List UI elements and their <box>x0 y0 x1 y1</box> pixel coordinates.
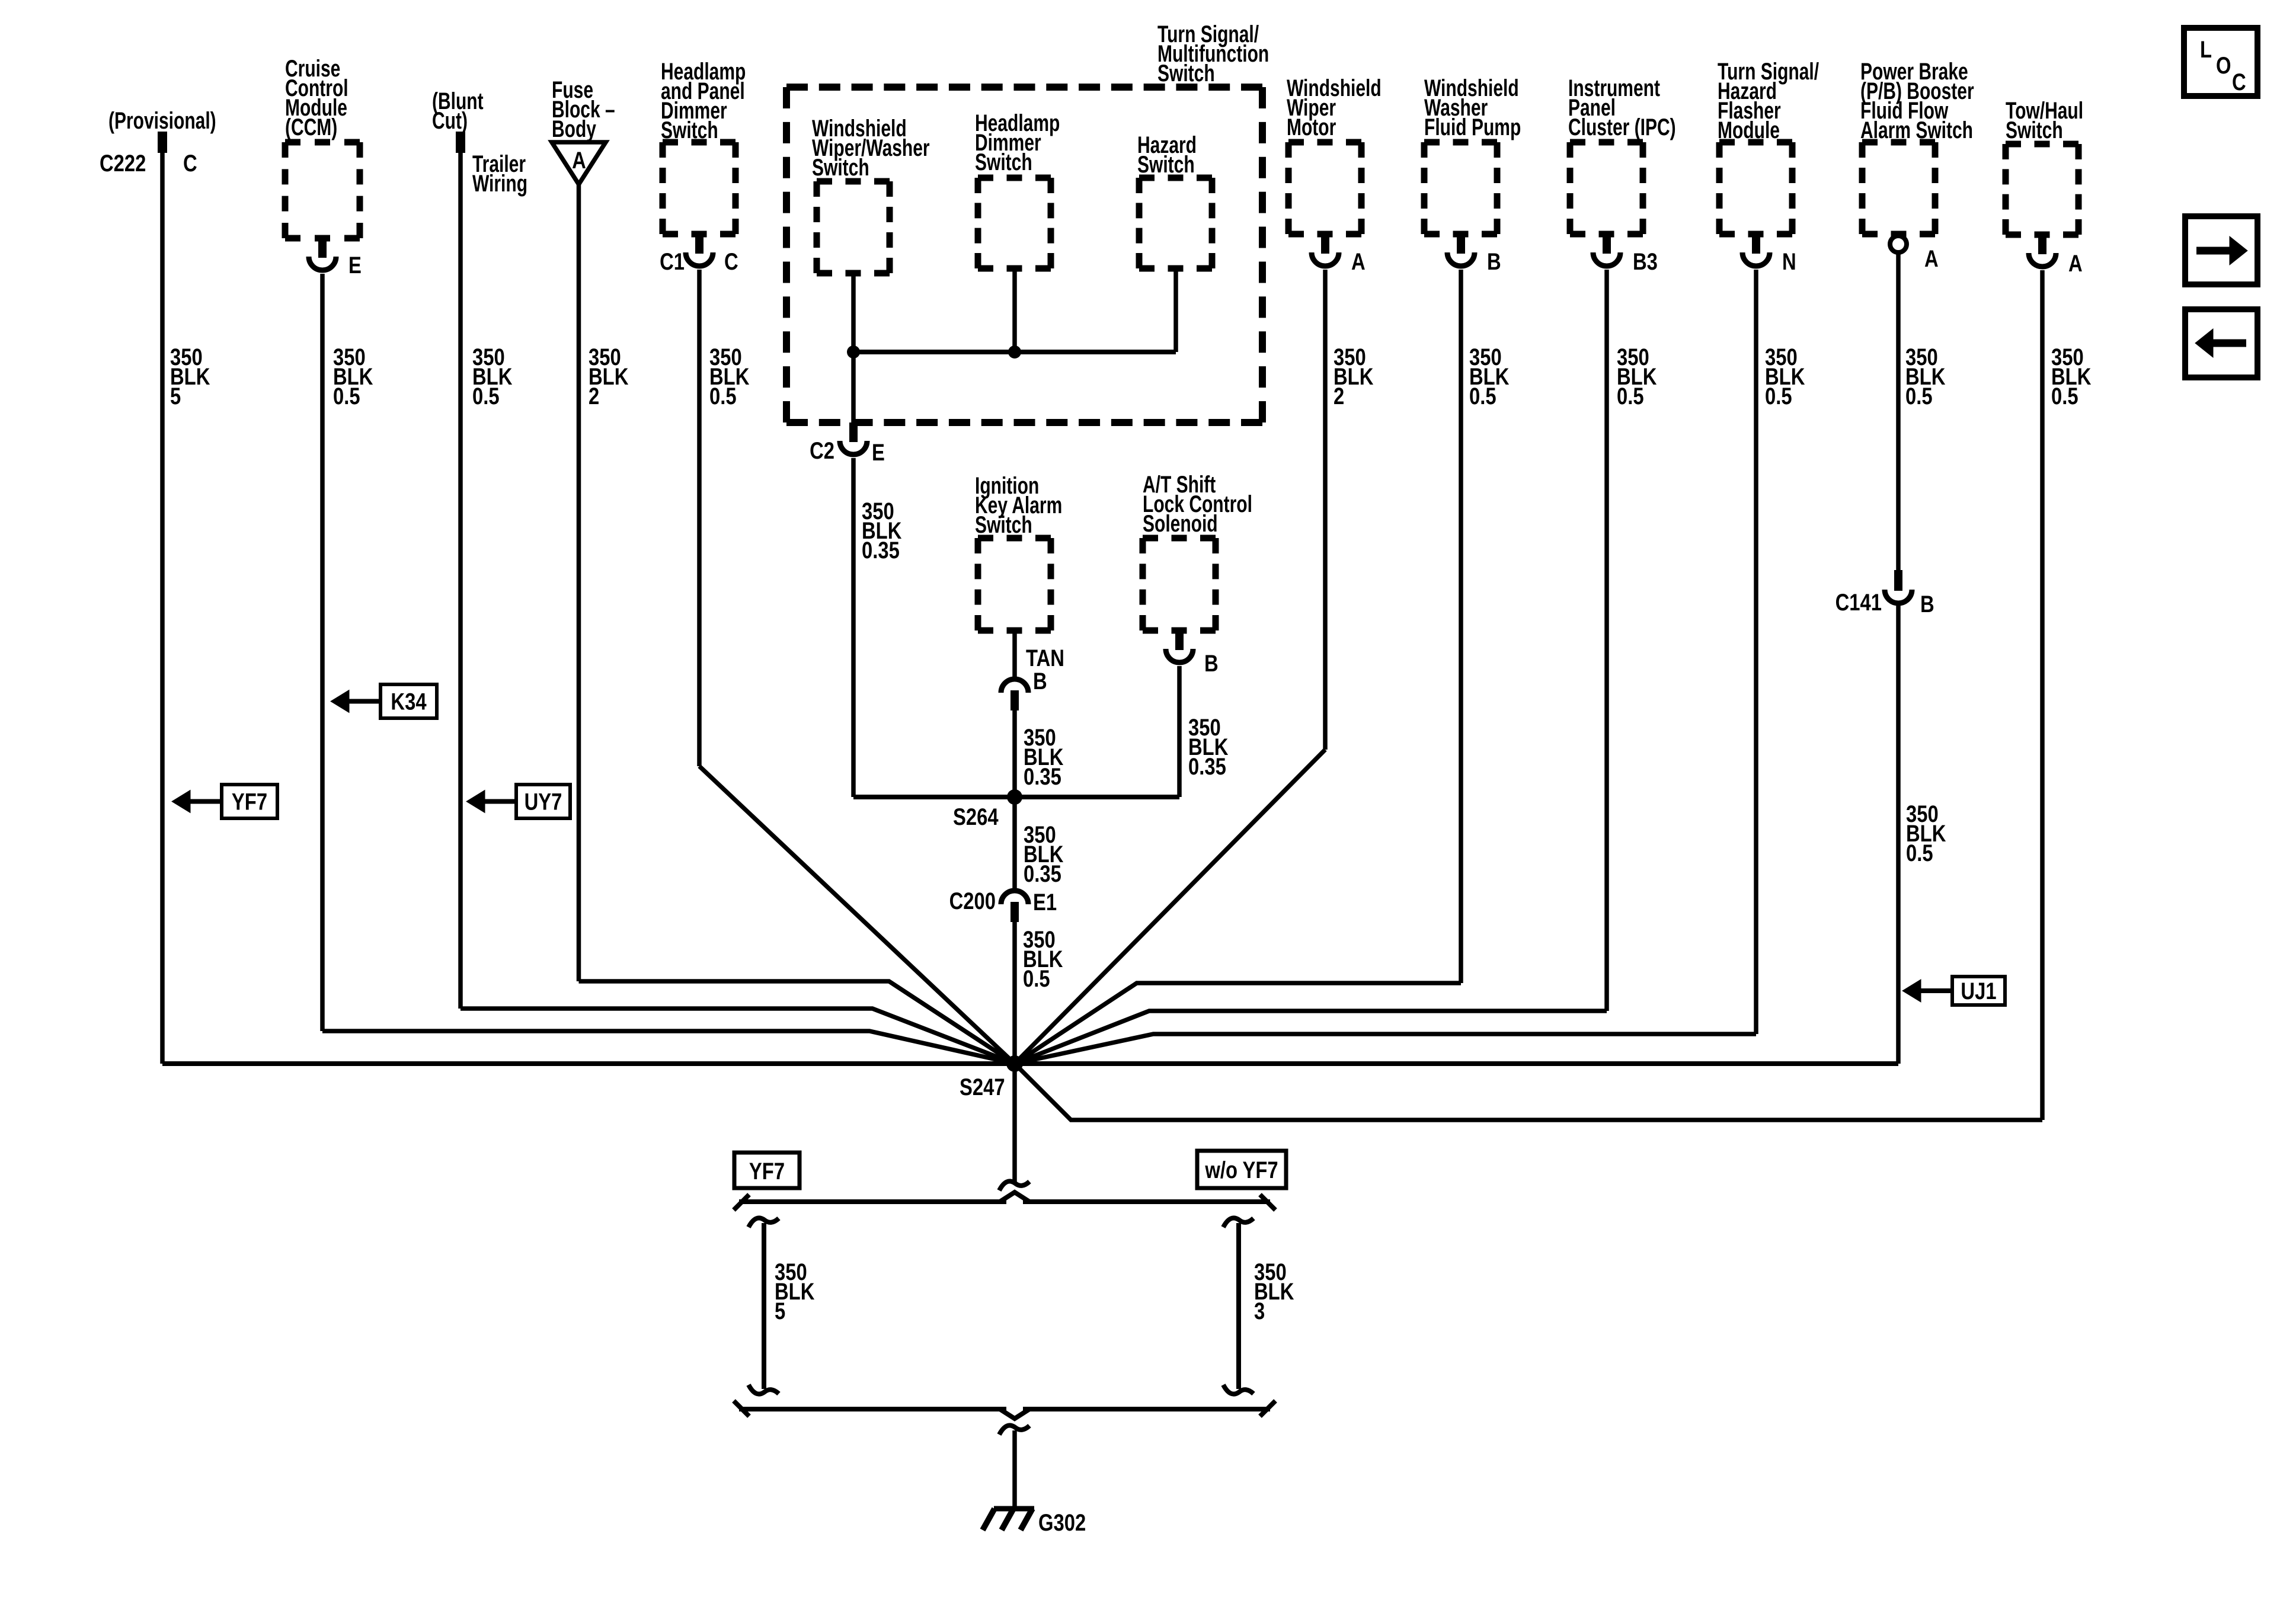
svg-text:B3: B3 <box>1633 248 1658 275</box>
svg-text:C141: C141 <box>1835 589 1882 616</box>
svg-text:Switch: Switch <box>975 149 1032 175</box>
svg-text:G302: G302 <box>1038 1509 1086 1536</box>
svg-text:Cluster (IPC): Cluster (IPC) <box>1568 114 1676 140</box>
svg-text:E: E <box>872 439 885 466</box>
svg-text:UY7: UY7 <box>525 788 562 815</box>
svg-text:S247: S247 <box>960 1074 1005 1100</box>
svg-text:5: 5 <box>775 1298 785 1324</box>
svg-text:B: B <box>1033 668 1047 694</box>
svg-text:B: B <box>1920 591 1934 617</box>
svg-text:0.35: 0.35 <box>1188 753 1226 780</box>
svg-text:0.5: 0.5 <box>1906 840 1933 866</box>
svg-text:w/o YF7: w/o YF7 <box>1204 1157 1278 1183</box>
svg-text:Body: Body <box>552 116 596 142</box>
svg-text:0.5: 0.5 <box>1023 965 1050 992</box>
svg-text:0.35: 0.35 <box>862 537 900 564</box>
svg-text:C222: C222 <box>100 150 146 177</box>
svg-text:Cut): Cut) <box>432 108 468 134</box>
svg-text:A: A <box>2068 250 2083 277</box>
svg-text:Wiring: Wiring <box>472 171 527 197</box>
svg-text:A: A <box>1351 248 1366 275</box>
svg-text:C2: C2 <box>810 437 834 464</box>
svg-text:(CCM): (CCM) <box>285 114 337 140</box>
svg-text:Alarm Switch: Alarm Switch <box>1860 117 1973 143</box>
svg-text:Module: Module <box>1718 117 1780 143</box>
svg-text:L: L <box>2200 36 2212 63</box>
svg-text:A: A <box>1924 245 1939 272</box>
svg-text:Switch: Switch <box>2006 117 2063 143</box>
svg-text:E1: E1 <box>1033 889 1057 916</box>
svg-text:C200: C200 <box>949 888 996 914</box>
svg-text:Switch: Switch <box>975 512 1032 538</box>
svg-text:Motor: Motor <box>1287 114 1336 140</box>
svg-text:C: C <box>2232 69 2246 95</box>
svg-text:E: E <box>348 252 362 279</box>
svg-text:YF7: YF7 <box>749 1158 785 1185</box>
svg-text:K34: K34 <box>391 688 427 715</box>
svg-text:UJ1: UJ1 <box>1961 978 1996 1004</box>
svg-text:N: N <box>1782 248 1796 275</box>
svg-text:C: C <box>724 248 738 275</box>
svg-text:O: O <box>2216 52 2231 79</box>
svg-text:Switch: Switch <box>812 155 869 181</box>
svg-text:0.35: 0.35 <box>1024 763 1061 790</box>
svg-text:5: 5 <box>170 383 181 409</box>
svg-text:0.5: 0.5 <box>1469 383 1496 409</box>
svg-text:0.5: 0.5 <box>1905 383 1933 409</box>
svg-text:0.5: 0.5 <box>333 383 360 409</box>
svg-text:3: 3 <box>1254 1298 1265 1324</box>
svg-text:Switch: Switch <box>661 117 718 143</box>
svg-text:B: B <box>1204 650 1219 677</box>
svg-text:0.5: 0.5 <box>709 383 737 409</box>
svg-text:0.5: 0.5 <box>1617 383 1644 409</box>
svg-text:Switch: Switch <box>1137 152 1195 178</box>
svg-text:0.35: 0.35 <box>1024 860 1061 887</box>
svg-text:0.5: 0.5 <box>472 383 500 409</box>
svg-text:(Provisional): (Provisional) <box>108 108 216 134</box>
svg-text:C: C <box>183 150 197 177</box>
svg-text:2: 2 <box>589 383 599 409</box>
svg-text:S264: S264 <box>953 804 999 830</box>
svg-text:C1: C1 <box>660 248 685 275</box>
svg-text:A: A <box>572 147 586 174</box>
svg-text:B: B <box>1487 248 1501 275</box>
svg-text:Solenoid: Solenoid <box>1143 511 1218 537</box>
svg-text:0.5: 0.5 <box>2051 383 2078 409</box>
svg-text:Switch: Switch <box>1157 60 1215 87</box>
svg-text:Fluid Pump: Fluid Pump <box>1424 114 1521 140</box>
svg-text:0.5: 0.5 <box>1765 383 1792 409</box>
svg-text:YF7: YF7 <box>232 788 267 815</box>
svg-text:2: 2 <box>1334 383 1344 409</box>
